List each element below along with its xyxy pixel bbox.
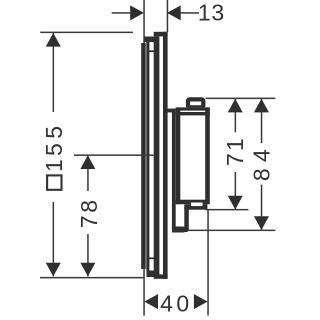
svg-text:4: 4 xyxy=(160,290,173,316)
svg-text:8: 8 xyxy=(249,168,275,181)
svg-text:1: 1 xyxy=(222,138,248,151)
svg-text:5: 5 xyxy=(41,126,67,139)
extension line 40 right xyxy=(207,210,209,316)
svg-text:1: 1 xyxy=(41,159,67,172)
dim 155 arrow down xyxy=(46,263,61,277)
svg-text:7: 7 xyxy=(222,153,248,166)
svg-text:0: 0 xyxy=(176,290,189,316)
svg-text:3: 3 xyxy=(211,0,224,25)
escutcheon back wall xyxy=(154,37,160,277)
dim 13 line left xyxy=(112,12,132,14)
dim 84 arrow down xyxy=(254,216,269,230)
cartridge foot xyxy=(184,204,207,210)
dim 71 line lower xyxy=(235,172,237,209)
ref line 78 top xyxy=(74,154,154,156)
flange cap xyxy=(163,109,176,113)
svg-text:8: 8 xyxy=(76,200,102,213)
dim 71 line upper xyxy=(235,99,237,132)
escutcheon front wall xyxy=(163,32,168,279)
svg-text:5: 5 xyxy=(41,143,67,156)
ref line 84 bottom xyxy=(189,230,276,232)
dim 78 arrow up xyxy=(80,155,95,169)
ref line knob top right xyxy=(206,98,276,100)
cartridge top cap xyxy=(176,107,210,110)
ref line square155 top xyxy=(40,32,133,33)
dim 13 arrow right-pointing xyxy=(130,5,144,20)
dim 78 line upper xyxy=(87,156,89,191)
flange wall xyxy=(172,109,176,228)
dim 84 arrow up xyxy=(254,99,269,113)
flange inner bar xyxy=(184,207,189,232)
cartridge bottom cap xyxy=(176,200,208,205)
dim 13 arrow left-pointing xyxy=(167,5,181,20)
handle knob xyxy=(188,99,203,107)
extension line 40 left xyxy=(143,264,145,316)
dim 78 line lower xyxy=(87,234,89,276)
cartridge body interior xyxy=(176,107,210,204)
dim 84 line upper xyxy=(261,99,263,143)
dim 155 line upper xyxy=(53,33,55,112)
dim 155 arrow up xyxy=(46,33,61,47)
dim 78 arrow down xyxy=(80,263,95,277)
dim 155 line lower xyxy=(53,202,55,276)
dim 84 line lower xyxy=(261,185,263,230)
label square symbol xyxy=(47,175,61,189)
cartridge right wall xyxy=(205,107,210,204)
carrier cap bottom xyxy=(147,271,155,278)
ref line bottom left xyxy=(40,277,144,279)
dim 40 arrow left-pointing xyxy=(144,294,158,309)
cartridge left wall xyxy=(176,107,181,204)
svg-text:7: 7 xyxy=(76,215,102,228)
dim 71 arrow up xyxy=(228,99,243,113)
cartridge foot notch xyxy=(191,203,203,207)
svg-text:1: 1 xyxy=(198,0,211,25)
escutcheon cap bottom xyxy=(154,274,168,278)
carrier rung top xyxy=(147,50,158,52)
carrier cap top xyxy=(145,37,155,43)
ref line 71 bottom xyxy=(206,209,249,211)
dim 13 line right xyxy=(167,12,199,14)
dim 40 arrow right-pointing xyxy=(194,294,208,309)
cartridge inner band xyxy=(176,112,210,115)
carrier rung bottom xyxy=(147,257,154,259)
extension line top right xyxy=(167,0,169,32)
plate carrier inner bar xyxy=(146,42,149,271)
svg-text:4: 4 xyxy=(249,149,275,162)
dim 71 arrow down xyxy=(228,196,243,210)
plate back flange bar xyxy=(141,43,146,269)
extension line top left xyxy=(143,0,145,43)
escutcheon cap top xyxy=(154,32,168,37)
flange bottom hook xyxy=(172,227,186,233)
